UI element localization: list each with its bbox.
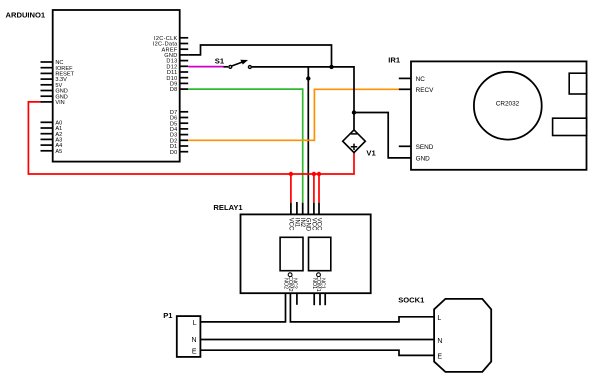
relay top pin stub VCC3 bbox=[318, 203, 320, 215]
pin A2 bbox=[41, 132, 63, 138]
pin 5V bbox=[41, 83, 63, 89]
svg-text:IN2: IN2 bbox=[299, 218, 305, 228]
relay contact circle 2 bbox=[288, 273, 292, 277]
diode V1 diamond bbox=[343, 130, 366, 153]
relay RELAY1 body bbox=[241, 214, 371, 293]
pin VIN bbox=[41, 100, 65, 106]
diode V1 plus sign bbox=[351, 144, 357, 150]
pin D13 bbox=[166, 59, 188, 65]
IR1 pin stub NC bbox=[399, 77, 411, 79]
svg-text:ARDUINO1: ARDUINO1 bbox=[6, 11, 46, 20]
svg-text:A5: A5 bbox=[55, 149, 62, 155]
pin A0 bbox=[41, 120, 63, 126]
svg-text:SOCK1: SOCK1 bbox=[398, 295, 425, 304]
pin GND right bbox=[164, 53, 188, 59]
svg-text:IN1: IN1 bbox=[293, 218, 299, 228]
pin A3 bbox=[41, 138, 63, 144]
svg-text:NC2: NC2 bbox=[292, 278, 298, 289]
relay coil box 1 bbox=[309, 237, 331, 270]
pin I2C-Data bbox=[153, 42, 188, 48]
pin D4 bbox=[170, 127, 188, 133]
pin AREF bbox=[161, 47, 188, 53]
pin D0 bbox=[170, 150, 188, 156]
svg-text:N: N bbox=[437, 338, 442, 345]
IR1 tab notch bottom bbox=[553, 118, 587, 135]
pin NC bbox=[41, 60, 64, 66]
wire red branch to relay VCC pin6 bbox=[318, 174, 320, 203]
relay top pin stub VCC1 bbox=[290, 203, 292, 215]
wire to IR1 GND bbox=[354, 113, 411, 158]
relay bottom stub NO1 bbox=[313, 293, 315, 305]
IR receiver IR1 body bbox=[411, 61, 587, 169]
svg-text:VCC: VCC bbox=[310, 218, 316, 231]
svg-text:S1: S1 bbox=[215, 56, 225, 65]
svg-text:P1: P1 bbox=[163, 311, 173, 320]
wire relay GND vertical bbox=[307, 67, 309, 215]
IR1 pin stub SEND bbox=[399, 145, 411, 147]
wire RECV stub bbox=[399, 88, 411, 90]
svg-text:VIN: VIN bbox=[55, 100, 64, 106]
pin GND left a bbox=[41, 89, 68, 95]
pin D2 bbox=[170, 138, 188, 144]
wire switch output to corner and down to diode bbox=[252, 67, 354, 130]
relay contact circle 1 bbox=[317, 273, 321, 277]
svg-text:GND: GND bbox=[416, 155, 431, 162]
pin I2C-CLK bbox=[154, 36, 188, 42]
pin GND left b bbox=[41, 94, 68, 100]
node junction gnd split bbox=[306, 76, 310, 80]
battery CR2032 circle bbox=[474, 72, 542, 140]
pin D5 bbox=[170, 121, 188, 127]
node junction diode top bbox=[352, 110, 356, 114]
pin IOREF bbox=[41, 66, 74, 72]
relay top pin stub VCC2 bbox=[313, 203, 315, 215]
pin A4 bbox=[41, 143, 63, 149]
plug P1 body bbox=[177, 316, 201, 357]
wire D8 green to relay IN2 bbox=[188, 89, 303, 203]
pin D11 bbox=[167, 70, 188, 76]
node junction switch-gnd bbox=[329, 65, 333, 69]
svg-text:CR2032: CR2032 bbox=[496, 101, 520, 108]
relay bottom stub COM1 bbox=[319, 293, 321, 305]
pin D9 bbox=[170, 82, 188, 88]
wire relay COM2 to socket L bbox=[290, 293, 434, 322]
relay bottom stub NC1 bbox=[324, 293, 326, 305]
switch S1 contact right bbox=[248, 66, 251, 69]
pin RESET bbox=[41, 72, 75, 78]
diode V1 minus sign bbox=[351, 133, 358, 135]
svg-text:N: N bbox=[192, 337, 197, 344]
wire relay NO2 to plug L bbox=[200, 293, 285, 322]
pin A1 bbox=[41, 126, 63, 132]
wire plug N to socket N bbox=[200, 339, 434, 341]
svg-text:L: L bbox=[437, 315, 441, 322]
pin A5 bbox=[41, 149, 63, 155]
wire plug E to socket E bbox=[200, 350, 434, 355]
node red junction 2 bbox=[312, 172, 316, 176]
pin D1 bbox=[170, 144, 188, 150]
relay top pin stub IN2 bbox=[302, 203, 304, 215]
wire red branch to relay VCC pin1 bbox=[290, 174, 292, 203]
switch S1 contact left bbox=[229, 65, 232, 68]
relay top pin stub IN1 bbox=[296, 202, 298, 214]
node red junction 3 bbox=[317, 172, 321, 176]
pin D10 bbox=[166, 76, 188, 82]
pin 3.3V bbox=[41, 77, 68, 83]
wire GND step from arduino bbox=[188, 45, 331, 67]
wire D2 orange to IR1 RECV bbox=[188, 89, 399, 140]
node red junction 1 bbox=[289, 172, 293, 176]
svg-text:RECV: RECV bbox=[416, 87, 434, 94]
svg-text:D0: D0 bbox=[170, 150, 178, 156]
socket SOCK1 octagon body bbox=[434, 299, 491, 372]
svg-text:L: L bbox=[193, 320, 197, 327]
wire switch stub left bbox=[224, 66, 229, 68]
svg-text:V1: V1 bbox=[366, 148, 376, 157]
svg-text:IR1: IR1 bbox=[388, 55, 401, 64]
wire red branch to relay VCC pin5 bbox=[313, 174, 315, 203]
svg-text:E: E bbox=[437, 353, 442, 360]
pin D6 bbox=[170, 116, 188, 122]
svg-text:RELAY1: RELAY1 bbox=[213, 203, 243, 212]
wire D12 magenta to switch bbox=[188, 66, 223, 68]
svg-text:VCC: VCC bbox=[287, 218, 293, 231]
svg-text:SEND: SEND bbox=[416, 144, 434, 151]
svg-text:NC: NC bbox=[416, 76, 426, 83]
svg-text:NC1: NC1 bbox=[320, 278, 326, 289]
svg-text:GND: GND bbox=[305, 218, 311, 232]
IC ARDUINO1 body bbox=[53, 10, 180, 162]
relay bottom stub NC2 bbox=[296, 293, 298, 305]
switch S1 arrow head bbox=[240, 60, 248, 65]
relay coil box 2 bbox=[280, 237, 303, 270]
svg-text:E: E bbox=[192, 349, 197, 356]
IR1 tab notch top bbox=[569, 73, 586, 94]
pin D8 bbox=[170, 87, 188, 93]
svg-text:D8: D8 bbox=[170, 87, 178, 93]
svg-text:VCC: VCC bbox=[315, 218, 321, 231]
pin D7 bbox=[170, 110, 188, 116]
pin D12 bbox=[166, 64, 188, 70]
pin D3 bbox=[170, 133, 188, 139]
switch S1 arm bbox=[232, 62, 243, 66]
wire VIN red bus bbox=[28, 102, 354, 174]
